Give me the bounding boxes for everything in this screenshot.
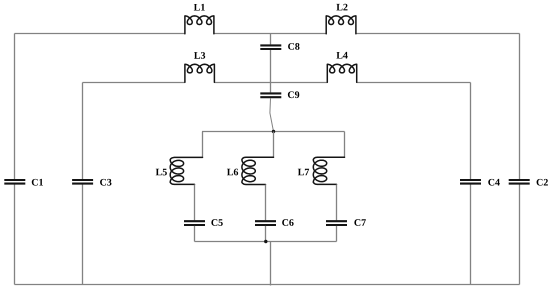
capacitor C2: [509, 179, 530, 181]
wire: resonator bottom bus: [195, 241, 337, 243]
wire: middle vertical C9 to resonator bus: [270, 98, 274, 131]
capacitor C3: [72, 179, 93, 181]
label C3: [100, 179, 106, 186]
wire: C7 top lead: [336, 184, 338, 220]
label C6: [282, 219, 288, 226]
inductor L1: [185, 16, 214, 34]
label C8: [288, 43, 294, 50]
label L5: [156, 169, 162, 176]
wire: outer left vertical: [14, 34, 16, 180]
wire: middle vertical C8 to inner top: [270, 50, 272, 92]
capacitor C4: [460, 179, 481, 181]
label L7: [298, 169, 304, 176]
label C2: [537, 179, 543, 186]
wire: middle vertical top lead: [270, 34, 272, 45]
node: bottom bus junction dot: [264, 240, 267, 243]
inductor L4: [327, 64, 356, 82]
wire: L5 branch drop: [202, 132, 204, 158]
label L3: [194, 52, 200, 59]
inductor L7: [313, 157, 344, 184]
wire: C6 top lead: [265, 185, 267, 221]
wire: bottom bus: [15, 284, 520, 286]
label L1: [194, 4, 200, 11]
wire: resonator top bus: [202, 131, 345, 133]
inductor L2: [326, 16, 356, 34]
wire: inner top middle segment: [214, 82, 327, 84]
capacitor C7: [326, 220, 347, 222]
label L6: [227, 169, 233, 176]
wire: outer top right segment: [356, 33, 520, 35]
wire: inner left vertical: [82, 83, 84, 180]
label C1: [32, 179, 38, 186]
wire: outer top middle segment: [214, 33, 326, 35]
wire: C5 bottom lead: [194, 226, 196, 242]
wire: inner top left segment: [83, 82, 185, 84]
capacitor C1: [4, 179, 25, 181]
inductor L5: [170, 157, 202, 184]
wire: outer right vertical: [519, 34, 521, 180]
wire: L7 branch drop: [344, 132, 346, 158]
wire: L6 branch drop: [273, 132, 275, 158]
capacitor C5: [184, 220, 205, 222]
label C9: [288, 91, 294, 98]
wire: C6 bottom lead: [265, 226, 267, 242]
label L4: [336, 52, 342, 59]
wire: outer top left segment: [15, 33, 185, 35]
wire: inner right vertical: [470, 83, 472, 180]
label C5: [211, 219, 217, 226]
wire: center drop to bottom bus: [270, 242, 272, 286]
capacitor C6: [255, 220, 276, 222]
capacitor C8: [260, 44, 281, 46]
label C7: [354, 219, 360, 226]
label L2: [336, 4, 342, 11]
wire: C7 bottom lead: [336, 226, 338, 242]
node: top bus junction dot: [272, 130, 275, 133]
wire: inner top right segment: [357, 82, 471, 84]
inductor L3: [185, 64, 215, 82]
inductor L6: [242, 157, 274, 184]
wire: C5 top lead: [194, 184, 196, 220]
capacitor C9: [260, 92, 281, 94]
label C4: [488, 179, 494, 186]
